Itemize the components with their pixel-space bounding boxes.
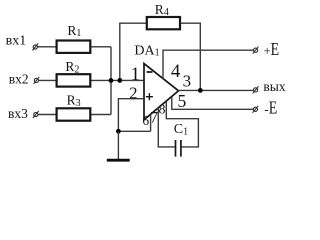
svg-text:вх3: вх3 [8, 106, 28, 121]
resistor R2 [57, 74, 91, 86]
svg-text:вых: вых [263, 79, 285, 94]
node junction dot output/R4 [198, 88, 203, 93]
svg-text:8: 8 [159, 102, 166, 117]
svg-text:5: 5 [178, 91, 187, 111]
wire ground vertical [117, 131, 119, 159]
terminal вх1 [33, 45, 37, 49]
pin 5 wire to -E [172, 97, 253, 109]
node junction dot summing/R2 [109, 78, 114, 83]
wire input3 horizontal [38, 114, 111, 116]
svg-text:вх1: вх1 [6, 33, 27, 48]
resistor R3 [57, 108, 91, 120]
wire R4 feedback left vertical [120, 23, 147, 80]
minus sign inverting input [147, 71, 153, 73]
svg-text:1: 1 [130, 64, 140, 85]
ground [107, 159, 130, 162]
terminal вх2 [34, 78, 38, 82]
terminal +E [254, 48, 258, 52]
svg-text:2: 2 [129, 83, 137, 102]
svg-text:6: 6 [142, 113, 149, 128]
pin 3 output wire [178, 89, 254, 91]
pin 8 wire to C1 right [166, 101, 198, 147]
svg-text:3: 3 [183, 72, 192, 91]
svg-text:4: 4 [171, 61, 181, 82]
node junction dot R4 feedback [117, 78, 122, 83]
pin 2 wire [118, 99, 144, 132]
terminal -E [253, 107, 257, 111]
svg-text:вх2: вх2 [9, 71, 29, 86]
node junction dot ground [116, 129, 121, 134]
terminal вх3 [34, 112, 38, 116]
terminal вых [254, 88, 258, 92]
resistor R1 [57, 41, 91, 53]
wire R4 feedback right vertical [180, 23, 201, 90]
wire ground horizontal pin2/pin6 [118, 130, 150, 132]
wire summing vertical R1-R3 [110, 47, 112, 115]
pin 4 wire to +E [163, 50, 253, 79]
wire input1 horizontal [38, 46, 111, 48]
wire input2 horizontal [39, 79, 144, 81]
pin 7 wire to C1 left [158, 108, 175, 147]
op-amp DA1 [144, 64, 179, 120]
pin 6 wire [150, 114, 152, 131]
resistor R4 [147, 17, 180, 29]
svg-text:7: 7 [150, 109, 158, 126]
plus sign noninverting input [146, 96, 153, 98]
capacitor C1 [175, 140, 177, 157]
